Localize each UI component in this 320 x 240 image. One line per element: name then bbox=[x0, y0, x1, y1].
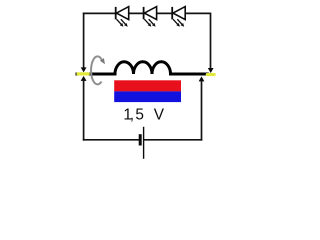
LED D2 bbox=[144, 7, 157, 27]
brush arrow up left bbox=[81, 76, 87, 81]
LED D1 bbox=[116, 7, 129, 27]
brush arrow down left bbox=[81, 67, 87, 72]
magnet S pole blue bbox=[114, 91, 181, 102]
wire top horizontal bbox=[83, 12, 211, 14]
brush arrow up right bbox=[199, 76, 205, 81]
LED D3 bbox=[172, 7, 185, 27]
inductor coil L1 bbox=[76, 62, 209, 74]
wire bottom right bbox=[144, 139, 202, 141]
battery negative plate bbox=[139, 134, 142, 145]
svg-text:5: 5 bbox=[135, 106, 144, 123]
wire bottom left bbox=[83, 139, 139, 141]
battery positive plate bbox=[143, 127, 145, 159]
magnet N pole red bbox=[114, 80, 181, 91]
wire left vertical upper bbox=[83, 13, 85, 69]
rotation arrow bbox=[91, 56, 105, 84]
svg-text:V: V bbox=[154, 106, 165, 123]
slip contact left yellow bbox=[78, 72, 88, 75]
brush arrow down right bbox=[208, 68, 214, 73]
wire right vertical lower bbox=[201, 81, 203, 141]
svg-text:,: , bbox=[130, 106, 134, 123]
wire left vertical lower bbox=[83, 81, 85, 141]
wire right vertical upper bbox=[210, 13, 212, 69]
slip contact right yellow bbox=[207, 73, 214, 76]
